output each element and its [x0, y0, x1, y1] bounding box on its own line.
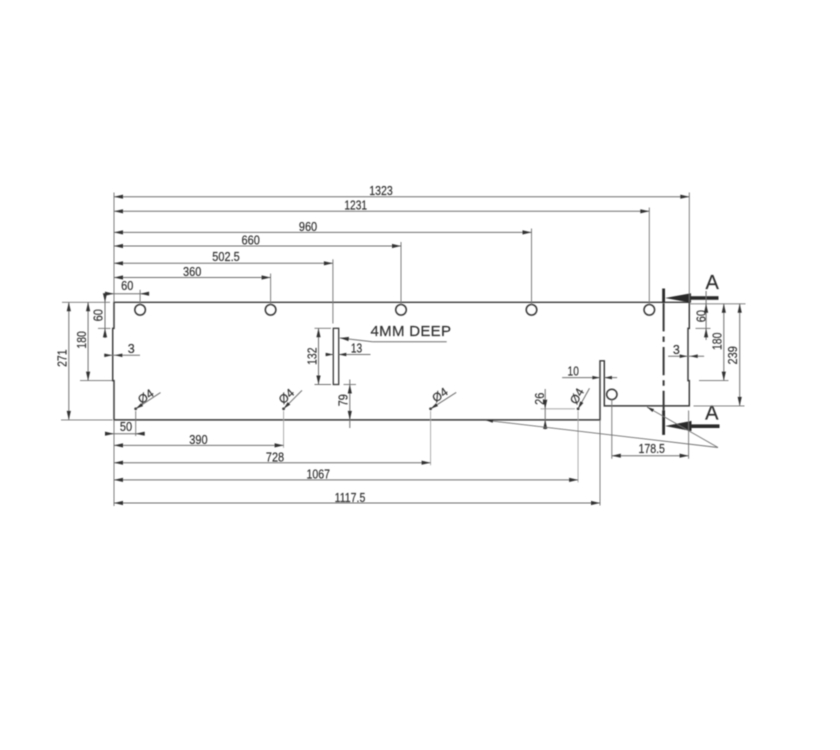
svg-text:180: 180 [710, 333, 724, 350]
hole B1 [134, 407, 137, 410]
extension lines bottom [114, 411, 600, 506]
section line A-A [662, 289, 665, 435]
dimension 13 [326, 341, 371, 356]
svg-text:728: 728 [266, 450, 284, 464]
section arrow bottom [665, 421, 720, 431]
svg-text:1067: 1067 [307, 468, 331, 482]
svg-text:Ø4: Ø4 [276, 386, 298, 407]
svg-text:180: 180 [75, 331, 89, 348]
svg-text:3: 3 [128, 342, 135, 356]
svg-text:A: A [706, 272, 720, 294]
svg-text:239: 239 [726, 346, 740, 364]
extension lines left [61, 302, 113, 420]
hole H4 [526, 305, 537, 316]
dimension 1231 [114, 199, 649, 214]
svg-text:390: 390 [189, 433, 207, 447]
dimension 60 top [105, 279, 149, 296]
hole B4 [577, 407, 580, 410]
dimension 132 [305, 328, 320, 384]
svg-text:26: 26 [533, 393, 547, 405]
leader diameter 4 hole B4 [567, 385, 590, 409]
dimension 50 [105, 420, 145, 436]
svg-text:Ø4: Ø4 [567, 385, 587, 406]
extension ticks groove [315, 328, 357, 384]
svg-text:Ø4: Ø4 [135, 386, 156, 407]
note 4MM DEEP [340, 323, 452, 342]
extension lines right [689, 304, 745, 406]
dimension 3 right [668, 343, 704, 358]
svg-text:360: 360 [183, 265, 201, 279]
dimension 360 [114, 265, 271, 280]
svg-text:178.5: 178.5 [638, 442, 665, 456]
hole H2 [265, 305, 276, 316]
dimension 239 [726, 304, 742, 406]
svg-text:60: 60 [695, 310, 709, 322]
dimension 1067 [114, 468, 578, 483]
svg-text:960: 960 [299, 220, 317, 234]
svg-text:1231: 1231 [344, 199, 367, 213]
dimension 660 [114, 233, 401, 248]
dimension 271 [56, 302, 71, 420]
dimension 1323 [114, 184, 689, 199]
dimension 60 right [695, 291, 709, 340]
leader line to lower edge of right portion [646, 406, 718, 448]
dimension 3 left [104, 342, 140, 357]
svg-text:660: 660 [242, 233, 260, 247]
dimension 502.5 [114, 250, 333, 265]
plate outline [113, 302, 690, 420]
section arrow top [665, 293, 719, 303]
dimension 79 [336, 380, 352, 429]
svg-text:3: 3 [673, 343, 680, 357]
svg-text:132: 132 [305, 347, 319, 364]
dimension 1117.5 [114, 491, 600, 505]
dimension 960 [114, 220, 532, 235]
svg-text:4MM DEEP: 4MM DEEP [371, 323, 452, 340]
leader diameter 4 hole B2 [276, 386, 302, 411]
leader line to lower edge of left portion [486, 419, 718, 448]
hole H3 [396, 305, 407, 316]
hole H5 [644, 305, 655, 316]
dimension 390 [114, 433, 284, 448]
svg-text:13: 13 [351, 341, 362, 355]
dimension 26 [533, 389, 575, 430]
dimension 728 [114, 450, 431, 465]
svg-text:50: 50 [120, 420, 132, 434]
groove 4MM DEEP pocket [333, 328, 338, 384]
svg-text:60: 60 [121, 279, 133, 293]
extension lines top [114, 193, 689, 324]
hole H6 [607, 389, 617, 399]
dimension 180 right [710, 304, 725, 381]
svg-text:79: 79 [336, 394, 350, 406]
hole H1 [135, 305, 146, 316]
hole B3 [429, 407, 432, 410]
dimension 60 left [91, 293, 107, 338]
svg-text:1323: 1323 [369, 184, 393, 198]
hole B2 [282, 407, 285, 410]
svg-text:271: 271 [56, 349, 70, 366]
svg-text:10: 10 [568, 365, 579, 379]
leader diameter 4 hole B1 [135, 386, 161, 410]
svg-text:60: 60 [91, 309, 105, 321]
svg-text:1117.5: 1117.5 [335, 491, 366, 505]
svg-text:502.5: 502.5 [212, 250, 239, 264]
dimension 180 left [75, 302, 90, 380]
leader diameter 4 hole B3 [429, 385, 456, 411]
dimension 178.5 [612, 400, 689, 459]
dimension 10 slot [562, 365, 617, 380]
svg-text:Ø4: Ø4 [429, 385, 450, 406]
